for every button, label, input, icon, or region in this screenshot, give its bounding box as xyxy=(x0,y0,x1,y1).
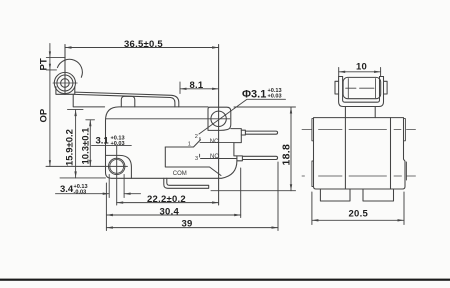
roller horizontal centerline xyxy=(53,82,77,84)
svg-text:15.9±0.2: 15.9±0.2 xyxy=(65,129,76,166)
lever bracket at roller xyxy=(56,87,75,95)
internal schematic: COM common line xyxy=(165,147,221,176)
dimension 20.5 xyxy=(312,192,404,225)
hole N1 outer circle xyxy=(109,158,125,174)
svg-text:-0.03: -0.03 xyxy=(74,190,87,196)
roller end cap lines xyxy=(347,79,349,98)
roller flange circle xyxy=(57,75,73,91)
svg-text:39: 39 xyxy=(182,219,193,230)
terminal pin NO xyxy=(242,156,277,159)
body mold tab bottom-left xyxy=(312,161,314,187)
body seam line xyxy=(106,118,230,120)
body mold tab top-right xyxy=(404,119,406,141)
schematic terminal ticks xyxy=(199,138,201,141)
dimension 30.4 xyxy=(106,168,240,231)
roller centerline dashes xyxy=(346,87,374,89)
svg-text:3.1: 3.1 xyxy=(96,136,110,147)
side view body xyxy=(314,118,406,189)
labels 2 1 3 NC NO COM xyxy=(173,134,220,177)
lever arm top edge xyxy=(75,92,179,107)
body interior line A xyxy=(344,118,346,189)
lever arm bottom edge xyxy=(75,94,175,106)
dimension PT (pre-travel) ticks and arrows xyxy=(46,44,65,167)
dimension 18.8 xyxy=(211,107,296,191)
roller fork bracket (side view) xyxy=(339,77,384,107)
svg-text:2: 2 xyxy=(195,134,198,140)
bottom rule xyxy=(0,279,450,281)
switch body outline (left view) xyxy=(106,107,242,178)
dimension 8.1 xyxy=(180,82,219,94)
dimension 39 xyxy=(106,162,278,231)
svg-text:8.1: 8.1 xyxy=(190,80,204,91)
svg-text:10: 10 xyxy=(356,62,367,73)
svg-text:36.5±0.5: 36.5±0.5 xyxy=(124,39,163,50)
hole N1 vertical centerline / 22.2 left extension xyxy=(116,146,118,205)
body mold tab top-left xyxy=(312,119,314,141)
dimension 15.9±0.2 xyxy=(60,110,106,178)
internal schematic: contact arm xyxy=(165,140,200,147)
dimension 3.4 with tolerance xyxy=(60,184,88,196)
roller hub circle xyxy=(61,79,70,88)
svg-text:Φ3.1: Φ3.1 xyxy=(242,88,266,100)
phantom arc: roller free position xyxy=(57,59,82,77)
internal schematic: NC contact line xyxy=(200,142,234,144)
lever hinge piece left of body xyxy=(73,94,104,107)
mounting boss N1 (bottom left) xyxy=(106,155,132,178)
svg-text:1: 1 xyxy=(188,142,191,148)
roller (left view): outer circle xyxy=(54,72,75,93)
plunger xyxy=(121,96,135,107)
terminal pin NC xyxy=(245,131,277,134)
body mold tab bottom-right xyxy=(405,162,407,180)
svg-text:18.8: 18.8 xyxy=(281,144,293,166)
svg-text:10.3±0.1: 10.3±0.1 xyxy=(80,127,91,165)
leader line for Φ3.1 xyxy=(199,99,286,134)
foot left xyxy=(320,189,350,201)
hole N1 inner circle xyxy=(110,160,124,174)
label Φ3.1 with tolerance xyxy=(242,88,282,101)
svg-text:OP: OP xyxy=(39,108,50,122)
svg-text:22.2±0.2: 22.2±0.2 xyxy=(147,194,186,205)
hole N2 circle Φ3.1 xyxy=(211,111,226,126)
stem xyxy=(344,107,346,118)
wire: hole N2 vertical centerline / 36.5-8.1-22.2 right extension xyxy=(218,45,220,206)
internal schematic: NO contact line xyxy=(201,158,237,160)
svg-text:30.4: 30.4 xyxy=(160,206,180,217)
mounting boss N2 (top right) xyxy=(208,107,231,130)
label 3.1 with tolerance and leader xyxy=(96,135,125,147)
body interior line B xyxy=(390,118,392,189)
svg-text:NO: NO xyxy=(210,154,219,160)
terminal pin NC base xyxy=(241,130,245,135)
roller cylinder (side view) xyxy=(343,77,381,98)
svg-text:NC: NC xyxy=(210,139,219,145)
svg-text:COM: COM xyxy=(173,171,187,177)
svg-text:+0.03: +0.03 xyxy=(268,94,282,100)
wire: roller vertical centerline / 36.5 left extension xyxy=(64,45,66,95)
terminal COM bent pin xyxy=(164,178,209,188)
hole N1 horizontal centerline + OP bottom tick xyxy=(46,165,127,167)
svg-text:20.5: 20.5 xyxy=(349,208,369,219)
dimension 22.2±0.2 xyxy=(117,201,219,203)
svg-text:PT: PT xyxy=(39,58,50,70)
roller axle tab left xyxy=(335,81,339,94)
foot right xyxy=(363,189,394,201)
svg-text:+0.03: +0.03 xyxy=(111,141,125,147)
dimension 36.5±0.5 xyxy=(65,46,219,48)
roller axle tab right xyxy=(384,81,388,94)
dimension 10 xyxy=(339,68,381,77)
centerline upper xyxy=(302,129,416,131)
centerline lower xyxy=(302,175,416,177)
dimension 10.3±0.1 xyxy=(86,120,95,167)
svg-text:3: 3 xyxy=(195,156,198,162)
terminal pin NO base xyxy=(237,156,243,161)
